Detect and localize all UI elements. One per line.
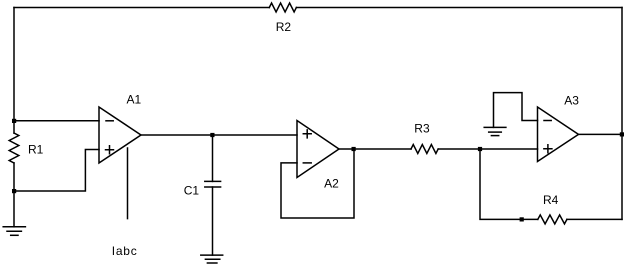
svg-text:A3: A3 <box>564 93 579 107</box>
svg-text:A1: A1 <box>127 93 142 107</box>
svg-text:A2: A2 <box>324 176 339 190</box>
svg-text:Iabc: Iabc <box>112 244 138 258</box>
svg-text:R2: R2 <box>276 20 292 34</box>
svg-text:R4: R4 <box>543 193 559 207</box>
svg-text:R3: R3 <box>414 121 430 135</box>
svg-text:C1: C1 <box>184 184 200 198</box>
svg-text:R1: R1 <box>28 142 44 156</box>
